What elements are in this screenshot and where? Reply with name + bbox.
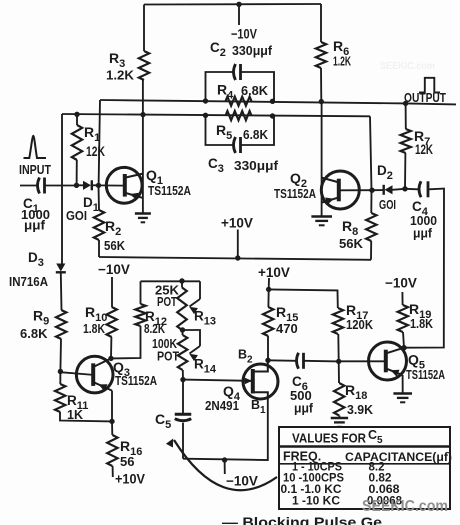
- svg-text:56K: 56K: [339, 236, 364, 251]
- svg-text:R5: R5: [216, 122, 232, 142]
- junction Q3 emitter / R11 / R16: [109, 419, 114, 424]
- svg-text:+10V: +10V: [221, 216, 253, 231]
- output pulse symbol: [419, 78, 440, 93]
- svg-text:−10V: −10V: [98, 262, 130, 277]
- junction Q2 base / D2 / R8: [369, 188, 374, 193]
- svg-text:TS1152A: TS1152A: [274, 187, 316, 201]
- svg-text:1.8K: 1.8K: [83, 321, 105, 336]
- svg-text:C3: C3: [208, 156, 224, 175]
- junction R15 top / +10V rail2: [266, 287, 271, 292]
- svg-text:−10V: −10V: [231, 27, 257, 42]
- svg-text:−10V: −10V: [385, 276, 417, 291]
- power +10V (center): [237, 230, 239, 259]
- svg-text:470: 470: [276, 321, 298, 336]
- wire B1 to -10V rail: [183, 400, 268, 460]
- resistor R11 1K: [59, 372, 61, 385]
- svg-text:C5: C5: [155, 411, 171, 431]
- svg-text:μμf: μμf: [24, 218, 46, 233]
- resistor R5 6.8K: [226, 111, 252, 120]
- wire Q2 base column from row2: [370, 116, 372, 190]
- ground Q1 emitter: [135, 212, 151, 215]
- wire rail2 to R17: [269, 289, 338, 308]
- junction row2 / Q1 collector: [140, 112, 145, 117]
- transistor Q2 TS1152A: [321, 171, 359, 209]
- capacitor C4 1000uuf: [405, 188, 418, 191]
- junction B2 / R15 / C6: [265, 358, 270, 363]
- transistor Q3 TS1152A: [76, 356, 113, 393]
- resistor R16 56: [111, 421, 113, 435]
- resistor R10 1.8K: [107, 307, 117, 337]
- wire Q2 collector/emitter vertical: [321, 102, 323, 216]
- ground Q5 emitter: [393, 392, 412, 395]
- svg-text:IN716A: IN716A: [9, 275, 48, 289]
- wire -10V top rail: [144, 3, 321, 6]
- wire to R12 bottom: [111, 326, 141, 358]
- svg-text:SEEKIC.com: SEEKIC.com: [362, 498, 448, 515]
- resistor R6 1.2K: [320, 4, 322, 42]
- junction input / R1 / D1 anode: [74, 183, 79, 188]
- svg-text:1.2K: 1.2K: [333, 55, 351, 69]
- ground R18: [331, 417, 348, 420]
- svg-text:1K: 1K: [67, 408, 83, 422]
- capacitor C6 500uuf: [268, 359, 296, 362]
- svg-text:330μμf: 330μμf: [234, 158, 279, 173]
- svg-text:POT: POT: [157, 350, 179, 364]
- svg-text:1 -10 KC: 1 -10 KC: [292, 494, 340, 508]
- resistor R17 120K: [333, 308, 343, 334]
- resistor R2 56K: [98, 185, 101, 210]
- table VALUES FOR C5: [279, 427, 450, 509]
- svg-text:— Blocking Pulse Ge: — Blocking Pulse Ge: [222, 514, 382, 525]
- junction Q3 base / R9 / R11: [58, 369, 63, 374]
- svg-text:μμf: μμf: [413, 226, 433, 241]
- transistor Q5 TS1152A: [369, 342, 407, 380]
- svg-text:330μμf: 330μμf: [232, 43, 273, 58]
- resistor R1 12K: [76, 114, 78, 125]
- power -10V (top): [238, 4, 240, 25]
- resistor R15 470: [267, 336, 269, 360]
- svg-text:POT: POT: [157, 295, 177, 309]
- svg-text:R8: R8: [342, 218, 358, 238]
- svg-text:1.2K: 1.2K: [106, 68, 135, 83]
- transistor Q4 2N491 unijunction: [243, 364, 278, 399]
- capacitor C2 330uuf: [206, 72, 233, 101]
- svg-text:8.2K: 8.2K: [144, 322, 165, 336]
- wire Q1 collector/emitter vertical: [142, 80, 144, 213]
- junction R13 bottom / R14 top: [180, 327, 185, 332]
- resistor R3 1.2K: [143, 5, 145, 52]
- junction top rail / -10V feed: [236, 2, 241, 7]
- svg-text:56K: 56K: [104, 238, 126, 253]
- diode D1 GOI: [77, 184, 84, 186]
- svg-text:TS1152A: TS1152A: [406, 368, 445, 382]
- svg-text:TS1152A: TS1152A: [148, 184, 191, 198]
- svg-text:VALUES FOR: VALUES FOR: [292, 432, 366, 446]
- svg-text:R9: R9: [33, 308, 49, 328]
- junction Q5 collector / R19 / C4 wire: [401, 345, 406, 350]
- wire cross-coupling row 1 (Q2 collector to Q1 base): [100, 100, 406, 103]
- wire Q1 base column: [99, 100, 100, 185]
- junction C2 right / R4 right: [270, 99, 275, 104]
- svg-text:12K: 12K: [86, 144, 105, 159]
- capacitor C5 (value per table): [182, 380, 184, 414]
- transistor Q1 TS1152A: [106, 167, 142, 203]
- svg-text:OUTPUT: OUTPUT: [404, 91, 446, 105]
- junction -10V stub (bottom): [222, 457, 227, 462]
- svg-text:D3: D3: [28, 250, 44, 269]
- svg-text:B1: B1: [251, 398, 266, 416]
- svg-text:CAPACITANCE(μf): CAPACITANCE(μf): [345, 450, 452, 464]
- power +10V (rail2): [268, 278, 270, 289]
- junction R5 right / C3 right: [270, 113, 275, 118]
- resistor R19 1.8K: [403, 332, 404, 348]
- junction row1 / output / R7: [403, 101, 408, 106]
- svg-text:R13: R13: [194, 309, 216, 328]
- potentiometer R14 100K POT: [183, 330, 201, 346]
- junction row2 / R1 top: [74, 112, 79, 117]
- svg-text:R14: R14: [194, 357, 217, 376]
- capacitor C3 330uuf: [206, 115, 233, 145]
- svg-text:2N491: 2N491: [205, 398, 239, 413]
- junction C6 / R17 / R18 / Q5 base: [336, 359, 341, 364]
- svg-text:−10V: −10V: [226, 474, 258, 489]
- resistor R12 8.2K: [135, 304, 145, 326]
- svg-text:μμf: μμf: [294, 401, 314, 416]
- diode D2 GOI: [372, 189, 384, 191]
- resistor R4 6.8K: [226, 97, 252, 106]
- svg-text:56: 56: [120, 454, 134, 469]
- annotation arrow from table to C5: [174, 440, 277, 490]
- svg-text:GOI: GOI: [379, 198, 396, 212]
- svg-text:1.8K: 1.8K: [410, 316, 434, 331]
- junction D1 cathode / Q1 base: [96, 183, 101, 188]
- svg-text:SEEKIC.com: SEEKIC.com: [380, 61, 435, 72]
- wire D3 column: [61, 114, 63, 264]
- potentiometer R13 25K POT: [181, 281, 183, 288]
- wire Q3 emitter column: [111, 391, 113, 422]
- svg-text:120K: 120K: [346, 318, 373, 332]
- svg-text:6.8K: 6.8K: [20, 326, 48, 341]
- junction R14 bottom / Q4 emitter / C5: [180, 377, 185, 382]
- svg-text:TS1152A: TS1152A: [115, 374, 157, 388]
- svg-text:R18: R18: [345, 382, 367, 402]
- svg-text:+10V: +10V: [115, 472, 145, 487]
- wire Q5 emitter to ground: [402, 375, 404, 393]
- junction +10V feed: [235, 255, 240, 260]
- junction row1 / R6 / Q2 collector: [319, 99, 324, 104]
- svg-text:C2: C2: [210, 40, 226, 59]
- svg-text:12K: 12K: [415, 142, 433, 157]
- junction R5 left / C3 left: [203, 113, 208, 118]
- svg-text:R2: R2: [105, 218, 121, 238]
- junction Q3 collector / R10 / R12 wire: [108, 356, 113, 361]
- wire pot top rail: [141, 280, 201, 282]
- diode D3 IN716A: [56, 264, 65, 272]
- capacitor C1 1000uuf input: [20, 185, 37, 187]
- svg-text:B2: B2: [238, 348, 253, 366]
- input pulse symbol: [24, 136, 47, 158]
- wire +10V rail (bottom of flip-flop): [99, 257, 371, 260]
- wire cross-coupling row 2 (Q1 collector to Q2 base): [62, 114, 370, 116]
- ground Q2 emitter: [311, 215, 332, 218]
- power -10V (bottom): [224, 460, 226, 474]
- svg-text:INPUT: INPUT: [19, 163, 51, 177]
- wire Q4 emitter: [183, 380, 243, 381]
- resistor R7 12K: [405, 103, 407, 129]
- resistor R9 6.8K: [56, 310, 66, 339]
- resistor R8 56K: [370, 190, 372, 213]
- svg-text:GOI: GOI: [66, 209, 87, 223]
- svg-text:+10V: +10V: [258, 265, 290, 280]
- wire output: [406, 103, 456, 104]
- svg-text:R1: R1: [84, 124, 100, 144]
- resistor R18 3.9K: [338, 361, 340, 383]
- svg-text:6.8K: 6.8K: [241, 83, 269, 98]
- svg-text:C5: C5: [368, 428, 383, 446]
- junction C2 left / R4 left: [203, 98, 208, 103]
- svg-text:3.9K: 3.9K: [347, 402, 374, 417]
- svg-text:D2: D2: [377, 163, 393, 182]
- junction D2 / R7 / C4: [402, 186, 407, 191]
- junction pot rail / R13 top: [179, 278, 184, 283]
- svg-text:6.8K: 6.8K: [243, 127, 269, 142]
